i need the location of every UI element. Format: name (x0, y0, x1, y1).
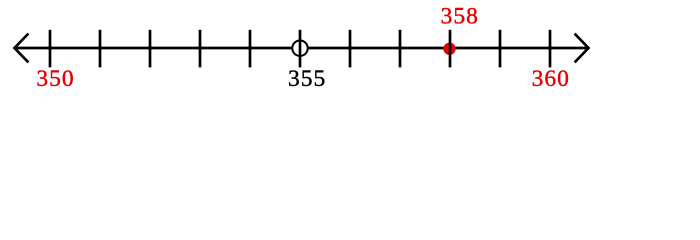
svg-text:358: 358 (441, 3, 479, 29)
svg-text:355: 355 (288, 66, 326, 92)
filled red point at 358 (443, 43, 455, 55)
tick 355 (passes through open circle) (299, 30, 302, 68)
tick 360 (549, 30, 552, 68)
svg-text:350: 350 (36, 66, 74, 92)
tick 350 (49, 30, 52, 68)
tick 351 (99, 30, 102, 68)
number line (horizontal axis) (15, 47, 588, 50)
open circle point at 355 (white fill over line) (292, 41, 307, 56)
tick 359 (499, 30, 502, 68)
left arrowhead (15, 35, 28, 62)
tick 356 (349, 30, 352, 68)
tick 357 (399, 30, 402, 68)
tick 358 (449, 30, 452, 68)
tick 352 (149, 30, 152, 68)
tick 354 (249, 30, 252, 68)
svg-text:360: 360 (532, 66, 570, 92)
right arrowhead (576, 35, 589, 62)
tick 353 (199, 30, 202, 68)
